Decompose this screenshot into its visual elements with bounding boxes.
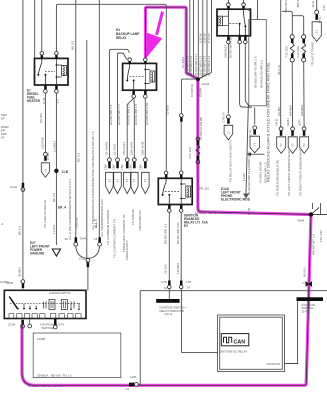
rotated wire labels: left area — [17, 40, 103, 277]
svg-text:GROUND: GROUND — [30, 252, 45, 256]
svg-text:C204: C204 — [8, 323, 16, 327]
wire loop 2 — [118, 53, 128, 100]
svg-text:TO P2B DE: TO P2B DE — [131, 209, 135, 225]
svg-text:15D-P30: 15D-P30 — [41, 137, 45, 149]
module E14A label — [200, 187, 251, 202]
svg-text:30-BK1: 30-BK1 — [17, 267, 21, 277]
svg-text:14: 14 — [94, 237, 98, 241]
svg-text:C584: C584 — [121, 164, 124, 170]
wire — [240, 44, 252, 108]
rotated wire labels: right side top — [224, 0, 327, 58]
svg-text:C?84: C?84 — [46, 152, 50, 160]
svg-text:WK-WT WT 1.5: WK-WT WT 1.5 — [312, 234, 316, 255]
wire x=34.7 — [34, 0, 36, 58]
ignition bus line — [140, 290, 327, 292]
inline connector on right vertical highlighted wire — [303, 281, 313, 287]
rotated destination labels, right side — [247, 56, 303, 196]
ground: ignition switch relay ground — [156, 291, 185, 316]
svg-text:E2: E2 — [184, 224, 188, 228]
svg-text:25-86A WR 0.13: 25-86A WR 0.13 — [194, 54, 198, 76]
svg-text:0.35 W: 0.35 W — [203, 33, 207, 43]
down arrow terminal — [243, 194, 249, 199]
svg-text:110-887: 110-887 — [277, 106, 281, 116]
svg-text:14: 14 — [126, 387, 130, 391]
wire — [109, 100, 111, 158]
connector C181 on highlighted wire — [126, 375, 139, 391]
svg-text:F23 10A: F23 10A — [188, 147, 192, 158]
inline connector C122 on left wire — [10, 183, 25, 192]
wire — [198, 0, 211, 79]
wire x=41.8 to relay E7 pin — [41, 0, 43, 52]
left edge partial text fragments — [0, 113, 9, 284]
svg-text:RELAY GROUND ALWAYS FITTED FOR: RELAY GROUND ALWAYS FITTED FOR BREAK HVA… — [265, 61, 270, 182]
svg-text:11-8B14: 11-8B14 — [53, 141, 57, 152]
relay E7 (top-left) — [27, 52, 68, 104]
relay E2 ignition enabled (middle) — [158, 171, 192, 212]
svg-text:C?B 14: C?B 14 — [221, 112, 225, 122]
wire loop to relay E3 pin 30 — [110, 49, 130, 100]
svg-text:50-5023 BN-YE WK 2.5: 50-5023 BN-YE WK 2.5 — [254, 56, 258, 88]
CAN relay box (bottom right) — [218, 315, 285, 372]
right-side wires from top — [281, 0, 317, 127]
wire — [190, 0, 198, 79]
svg-text:C122: C122 — [10, 185, 18, 189]
svg-text:C4LD: C4LD — [317, 14, 321, 23]
svg-text:0.14 W: 0.14 W — [207, 33, 211, 43]
svg-text:SWITCH: SWITCH — [42, 326, 54, 330]
highlight arrow — [155, 11, 164, 35]
svg-text:HEATER: HEATER — [27, 99, 41, 103]
svg-text:9B0-DC3: 9B0-DC3 — [296, 0, 300, 8]
svg-text:110-8B7: 110-8B7 — [176, 263, 180, 274]
svg-text:F16 10A: F16 10A — [285, 46, 289, 57]
pins below ignition switch box — [8, 319, 64, 331]
svg-text:13-5C15 5D-WT WR 1.5: 13-5C15 5D-WT WR 1.5 — [195, 211, 231, 215]
svg-text:15-5023 OG-BK: 15-5023 OG-BK — [259, 161, 263, 183]
svg-text:23-2A3: 23-2A3 — [163, 264, 167, 274]
svg-text:150-1A23: 150-1A23 — [122, 142, 126, 155]
svg-text:C?B: C?B — [248, 130, 252, 136]
svg-text:C584: C584 — [105, 164, 108, 170]
svg-text:GN-OG WR 1.3: GN-OG WR 1.3 — [127, 104, 131, 125]
svg-text:11-5A1: 11-5A1 — [52, 224, 56, 234]
wire — [254, 108, 256, 125]
wire — [194, 0, 198, 79]
wire x=22.9 — [22, 0, 24, 279]
svg-text:ALL TRANSMISSIONS (T)D: ALL TRANSMISSIONS (T)D — [100, 198, 104, 237]
svg-text:FROM ICAN C: FROM ICAN C — [125, 239, 129, 260]
svg-text:AM 33: AM 33 — [275, 118, 279, 126]
svg-text:.NT: .NT — [0, 136, 5, 140]
svg-text:A13: A13 — [322, 5, 326, 11]
svg-text:GN-OG WR 1.5: GN-OG WR 1.5 — [134, 104, 138, 125]
inline pins — [168, 281, 171, 286]
svg-text:BK 2.5: BK 2.5 — [52, 193, 56, 202]
wire — [197, 0, 199, 79]
svg-text:ALL TRANSMISSIONS INTERCONNECT: ALL TRANSMISSIONS INTERCONNECTING CMD BE… — [91, 131, 95, 230]
ground bar bottom right — [285, 297, 324, 363]
middle wire band down to connectors — [110, 98, 146, 158]
fuse F16 (left) — [285, 35, 295, 62]
wire — [144, 98, 146, 158]
svg-text:11-B4: 11-B4 — [242, 173, 246, 181]
svg-text:31B-8624: 31B-8624 — [224, 45, 228, 58]
svg-text:F16 10A: F16 10A — [296, 46, 300, 57]
module box corner bottom-right of E14A — [311, 203, 327, 215]
svg-text:GN-BK: GN-BK — [199, 87, 203, 97]
svg-text:GN-BK WR 1.5: GN-BK WR 1.5 — [109, 104, 113, 125]
junction dot at highlighted corner — [309, 212, 313, 216]
svg-text:C584: C584 — [139, 164, 142, 170]
wire x=75.8 — [75, 0, 77, 237]
relay (top-right) — [217, 0, 251, 44]
svg-text:7A: 7A — [164, 286, 168, 290]
svg-text:ALL T: ALL T — [94, 219, 98, 228]
svg-text:29-60 WR 0.13: 29-60 WR 0.13 — [189, 55, 193, 76]
svg-text:FB_DC: FB_DC — [200, 187, 211, 191]
svg-text:GN-BN WR 1.3: GN-BN WR 1.3 — [117, 104, 121, 125]
wire x=86.8 — [86, 40, 88, 258]
pin above ignition switch box — [6, 280, 25, 291]
ground arrow — [52, 249, 60, 256]
svg-text:..4: ..4 — [0, 222, 4, 226]
svg-text:14B733: 14B733 — [75, 217, 79, 228]
svg-text:25-00 WR 0.13: 25-00 WR 0.13 — [203, 55, 207, 76]
wire with fuse — [282, 11, 293, 126]
svg-text:IB HEADLAMP CLEANING FRO: IB HEADLAMP CLEANING FRO — [247, 151, 251, 195]
svg-text:C584: C584 — [113, 164, 116, 170]
svg-text:GN-BN WR 0.50: GN-BN WR 0.50 — [145, 102, 149, 125]
svg-text:11: 11 — [86, 260, 89, 264]
svg-text:C?8: C?8 — [161, 280, 167, 284]
svg-text:TO LOWBEAM CURRENT: TO LOWBEAM CURRENT — [106, 209, 110, 245]
relay E3 backup lamp relay (top-middle) — [116, 28, 157, 98]
svg-text:C?8: C?8 — [186, 280, 192, 284]
wire — [246, 106, 248, 194]
connector box 14405 — [33, 333, 121, 378]
svg-text:TO AUTO TRANS: TO AUTO TRANS — [311, 42, 315, 66]
svg-text:15-1A6A5: 15-1A6A5 — [105, 141, 109, 155]
wires below relay E2 to ignition bus — [169, 212, 181, 290]
svg-text:C15: C15 — [303, 281, 309, 285]
svg-text:GEB 7: GEB 7 — [298, 118, 302, 126]
svg-text:640-8801: 640-8801 — [300, 104, 304, 116]
svg-text:OG-BU: OG-BU — [39, 113, 43, 123]
svg-text:BK 2.5: BK 2.5 — [17, 226, 21, 235]
svg-text:GEM 4: GEM 4 — [286, 117, 290, 126]
wire: relay E7 pin 86 up, across top, down to relay E2 — [56, 4, 166, 171]
svg-text:IGNITION SW? 30: IGNITION SW? 30 — [49, 291, 71, 295]
five connector pins + pentagons — [105, 158, 150, 194]
svg-text:1.5: 1.5 — [55, 99, 59, 104]
svg-text:15B-1A64: 15B-1A64 — [129, 141, 133, 155]
splice E244 — [196, 77, 200, 81]
wires: top-left verticals — [23, 0, 166, 279]
svg-text:RELAY: RELAY — [116, 36, 127, 40]
relay E2 label — [184, 214, 209, 229]
diode/connector under relay E7 — [41, 93, 50, 177]
fuse F16 (right) — [296, 35, 306, 62]
rotated wire labels: middle band — [91, 102, 149, 258]
svg-text:TO RIGHT FRONT WINDOW HEAT: TO RIGHT FRONT WINDOW HEAT — [299, 148, 303, 196]
svg-text:640-8803: 640-8803 — [289, 104, 293, 116]
wire — [198, 0, 203, 79]
svg-text:14405: 14405 — [37, 337, 46, 341]
ignition switch box — [4, 290, 86, 318]
svg-text:BU 2.5: BU 2.5 — [77, 152, 81, 162]
wire — [168, 289, 170, 291]
svg-text:TO FUEL FILTER HE: TO FUEL FILTER HE — [43, 200, 47, 228]
svg-text:7644: 7644 — [80, 237, 87, 241]
wire x=99 — [98, 0, 100, 237]
wire — [180, 289, 182, 291]
svg-text:50-881A BD-GN TN 1.5: 50-881A BD-GN TN 1.5 — [37, 374, 72, 378]
fan of wires converging to splice E244 — [190, 0, 212, 79]
connector C414 with pin — [221, 112, 232, 182]
svg-text:15B-1A45: 15B-1A45 — [140, 141, 144, 155]
svg-text:50-RA25 RD WR 2.5: 50-RA25 RD WR 2.5 — [259, 60, 263, 88]
svg-text:15-5073A: 15-5073A — [190, 84, 194, 97]
wire — [127, 98, 134, 158]
svg-text:50-RD WR 0.50: 50-RD WR 0.50 — [229, 36, 233, 58]
svg-text:C181: C181 — [130, 375, 138, 379]
svg-text:LT-GNA BK-YE TN 1.5: LT-GNA BK-YE TN 1.5 — [28, 384, 62, 388]
wire — [227, 44, 229, 114]
wire above relay E2 right pin — [181, 79, 196, 113]
svg-text:(1A 2): (1A 2) — [164, 312, 172, 316]
svg-text:30-D: 30-D — [311, 0, 315, 7]
svg-text:IGNITION GL RELAY: IGNITION GL RELAY — [219, 349, 248, 353]
svg-text:CAN: CAN — [234, 339, 246, 345]
svg-text:(2-R): (2-R) — [302, 309, 309, 313]
wire — [180, 212, 182, 280]
svg-text:90 W: 90 W — [247, 208, 251, 215]
wire — [257, 0, 259, 20]
svg-text:C187A: C187A — [0, 280, 9, 284]
svg-text:ALL (T)DS TRANSMISSIONS WITHOU: ALL (T)DS TRANSMISSIONS WITHOUT CFT — [68, 179, 72, 240]
wire hook into junction box — [243, 9, 249, 11]
wire — [280, 0, 282, 127]
connector pentagon top-right — [311, 10, 322, 66]
svg-text:29-00 WR 0.14: 29-00 WR 0.14 — [207, 55, 211, 76]
wire — [133, 98, 135, 158]
three connector pins + pentagons mid-right — [275, 104, 309, 153]
wire — [168, 212, 170, 280]
wire — [117, 100, 119, 158]
svg-text:TO RELAY BOX HVAC AND FU: TO RELAY BOX HVAC AND FU — [229, 140, 233, 182]
fuse on highlighted wire F23 — [188, 137, 200, 164]
svg-text:11.B: 11.B — [62, 170, 69, 174]
drop wire to C181 — [139, 291, 141, 386]
wire from relay E7 pin 85 to ground — [30, 93, 69, 256]
svg-text:ER_4: ER_4 — [58, 206, 66, 210]
svg-text:ELECTRONIC MOD: ELECTRONIC MOD — [221, 198, 251, 202]
svg-text:IGNITION: IGNITION — [267, 362, 280, 366]
svg-text:9B0-DC30: 9B0-DC30 — [284, 0, 288, 13]
wires below top-right relay — [228, 0, 257, 194]
S-curve connector on wire x=99 — [65, 217, 102, 290]
svg-text:BK-RD WR 4.3: BK-RD WR 4.3 — [163, 223, 167, 244]
svg-text:TO LEFT FRONT WINDOW HEAT: TO LEFT FRONT WINDOW HEAT — [287, 150, 291, 196]
svg-text:30-5.31: 30-5.31 — [277, 64, 281, 75]
wire — [198, 0, 207, 79]
terminal boxes inside ignition switch bottom — [9, 314, 81, 319]
wire — [245, 44, 249, 107]
svg-text:NK 2.5: NK 2.5 — [71, 40, 75, 50]
connector pin + pentagon + arrow at x=254.7 — [247, 126, 265, 156]
svg-text:F23 3.5A: F23 3.5A — [319, 230, 323, 242]
svg-text:15-1A23: 15-1A23 — [113, 143, 117, 155]
svg-text:14: 14 — [187, 286, 191, 290]
rotated wire labels: fan wires top-middle — [125, 33, 211, 274]
wire to connector — [316, 0, 318, 10]
svg-text:.NT: .NT — [0, 117, 5, 121]
svg-text:11-B30: 11-B30 — [166, 105, 170, 115]
svg-text:FROM KBD ES: FROM KBD ES — [138, 210, 142, 231]
svg-text:C1?4: C1?4 — [57, 322, 65, 326]
svg-text:15-5073A GN-BK: 15-5073A GN-BK — [199, 117, 203, 140]
svg-text:90-5A3: 90-5A3 — [303, 267, 307, 277]
svg-text:15-30A1: 15-30A1 — [181, 56, 185, 68]
svg-text:C584: C584 — [130, 164, 133, 170]
junction box right of relay — [249, 20, 266, 106]
svg-text:BK-BU WR 4.53: BK-BU WR 4.53 — [176, 222, 180, 244]
wire with fuse — [293, 16, 305, 127]
svg-text:9644: 9644 — [298, 219, 305, 223]
svg-text:TO R2B BLINDSHIELD RE: TO R2B BLINDSHIELD RE — [276, 160, 280, 196]
svg-text:E244: E244 — [202, 82, 209, 86]
svg-text:TO LOWTIER CURRENT TR: TO LOWTIER CURRENT TR — [113, 218, 117, 258]
